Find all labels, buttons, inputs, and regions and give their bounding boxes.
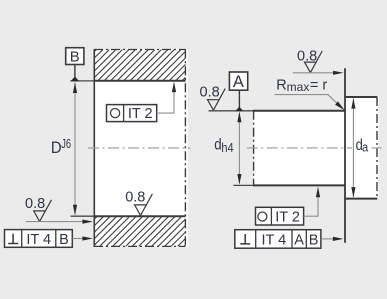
svg-text:J6: J6 [61,137,71,151]
leader Rmax to fillet corner [275,95,338,104]
shaft top extension line [209,110,254,112]
svg-text:IT 2: IT 2 [128,106,153,122]
bore bottom extension line [71,215,95,217]
svg-text:Rmax= r: Rmax= r [276,77,327,94]
svg-text:h4: h4 [221,140,233,155]
housing break line right [184,49,186,247]
svg-text:B: B [59,232,69,248]
svg-text:0.8: 0.8 [25,196,45,212]
leader 0.8 to housing face [26,221,84,223]
datum B box [66,48,84,65]
svg-text:IT 4: IT 4 [26,232,51,248]
svg-text:a: a [362,140,369,155]
shaft bottom extension line [233,184,253,186]
dimension d_h4 line [238,113,240,184]
housing section white body [94,49,188,246]
leader perpendicularity to shoulder extension [321,238,334,240]
svg-text:0.8: 0.8 [200,85,220,101]
roundness tolerance frame (housing) [107,105,157,122]
shaft centerline [247,147,352,149]
perpendicularity frame (shaft) [235,230,321,249]
perpendicularity symbol (shaft) [240,234,250,244]
shoulder top edge [345,96,377,98]
leader perpendicularity to housing face [72,238,83,240]
housing break line top [94,49,186,51]
datum A triangle [235,107,243,112]
datum A box [229,72,247,90]
leader 0.8 to shoulder face [293,72,334,74]
svg-text:A: A [233,73,244,91]
shaft break line [253,111,255,186]
shaft top edge [253,110,346,112]
bore surface bottom [94,215,186,217]
datum A stem [238,90,240,108]
dimension D arrow down [73,205,77,216]
leader roundness to bore surface [157,83,174,113]
bore surface top [94,80,186,82]
shoulder body white [345,97,379,199]
roundness tolerance frame (shaft) [256,207,304,225]
svg-text:D: D [51,139,62,157]
shoulder bottom edge [345,198,377,200]
datum B triangle [70,77,79,82]
dimension d_a line [352,99,354,198]
leader roundness to shaft surface [304,188,318,216]
shaft bottom edge [253,184,346,186]
housing break line bottom [94,245,186,247]
housing left face edge [93,49,95,247]
roundness circle symbol (shaft) [258,212,267,221]
perpendicularity frame (housing) [5,230,73,248]
shaft body white [254,111,346,186]
roundness circle symbol [111,109,120,118]
housing hatch bottom block [67,216,221,246]
housing centerline [88,147,191,149]
shoulder face line [344,68,346,242]
svg-text:B: B [309,232,319,248]
shoulder break line [376,97,378,199]
dimension D line [74,83,76,215]
svg-text:A: A [294,232,304,248]
bore top extension line [71,80,95,82]
svg-text:IT 4: IT 4 [261,232,286,248]
svg-text:IT 2: IT 2 [275,209,300,225]
svg-text:B: B [70,48,80,65]
perpendicularity symbol [8,234,18,244]
dimension D arrow up [73,83,77,94]
datum B stem [74,65,76,79]
svg-text:0.8: 0.8 [125,190,145,206]
housing hatch top block [66,50,220,81]
